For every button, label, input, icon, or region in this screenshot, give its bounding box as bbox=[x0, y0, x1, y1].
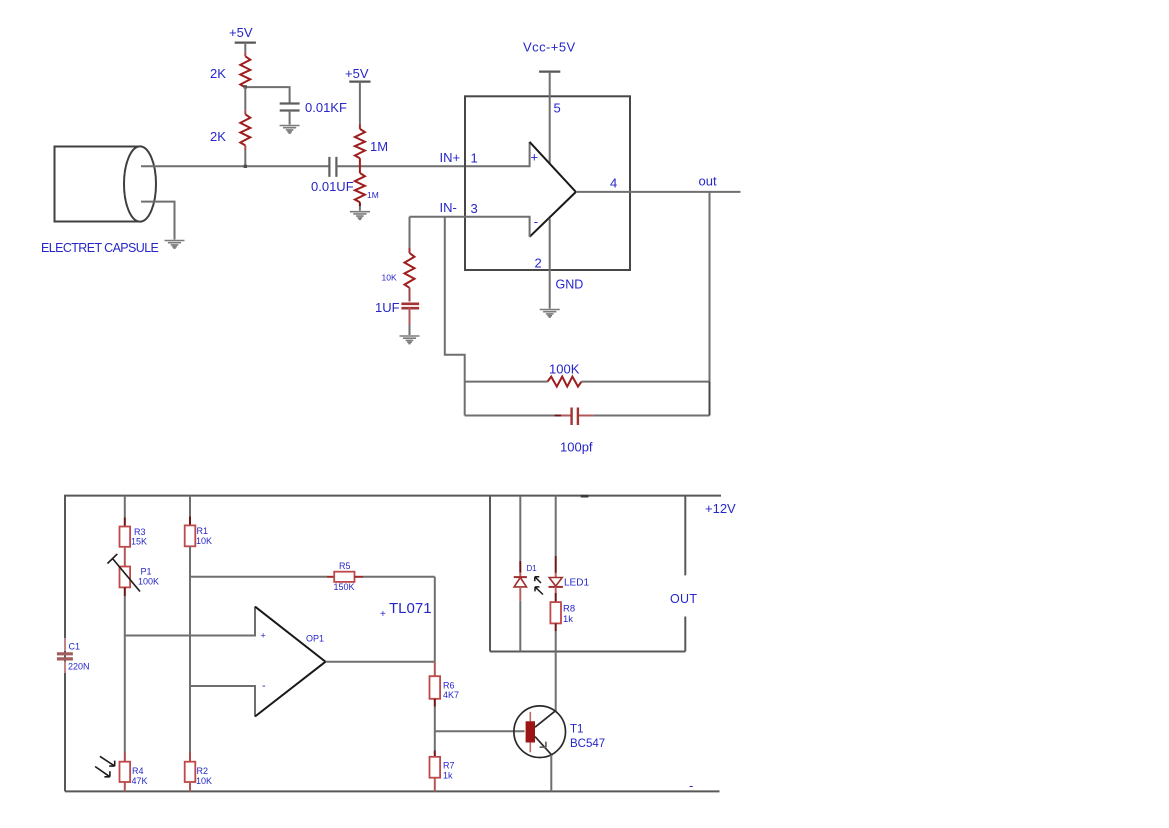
svg-text:out: out bbox=[699, 174, 717, 189]
svg-text:LED1: LED1 bbox=[564, 578, 589, 589]
resistor 2K lower bbox=[240, 114, 250, 145]
power +5V (right) bbox=[349, 81, 370, 83]
svg-text:R4: R4 bbox=[132, 766, 144, 776]
wire R5 net bbox=[190, 576, 327, 578]
svg-text:T1: T1 bbox=[570, 724, 583, 736]
svg-text:15K: 15K bbox=[131, 537, 147, 547]
resistor 2K upper bbox=[240, 56, 250, 87]
svg-text:+: + bbox=[531, 150, 539, 165]
svg-text:TL071: TL071 bbox=[389, 600, 432, 617]
wire R5 to output node bbox=[355, 576, 364, 578]
wire bbox=[189, 546, 191, 752]
svg-text:47K: 47K bbox=[132, 776, 148, 786]
svg-text:C1: C1 bbox=[69, 642, 81, 652]
svg-text:150K: 150K bbox=[334, 582, 355, 592]
wire mic ground bbox=[141, 202, 175, 240]
wire junction to cap bbox=[245, 87, 289, 103]
wire base bbox=[435, 730, 525, 732]
diode D1 bbox=[514, 496, 538, 652]
svg-text:2K: 2K bbox=[210, 66, 226, 81]
node junction main bbox=[244, 165, 247, 168]
resistor R6 bbox=[430, 662, 460, 700]
svg-text:10K: 10K bbox=[196, 536, 212, 546]
svg-text:1M: 1M bbox=[370, 139, 388, 154]
capacitor 0.01UF series bbox=[329, 157, 336, 177]
ground (capsule) bbox=[165, 241, 185, 249]
svg-text:1k: 1k bbox=[563, 614, 573, 625]
svg-text:R8: R8 bbox=[563, 604, 575, 615]
LDR arrows bbox=[95, 756, 115, 777]
svg-text:R2: R2 bbox=[197, 766, 209, 776]
resistor R8 bbox=[550, 587, 575, 652]
ground (1UF) bbox=[400, 336, 420, 344]
svg-text:4K7: 4K7 bbox=[443, 690, 459, 700]
ground (0.01KF) bbox=[280, 126, 300, 134]
capacitor C1 bbox=[57, 638, 90, 673]
wire op-amp output bbox=[326, 661, 435, 663]
resistor R1 bbox=[185, 525, 212, 546]
power Vcc bar bbox=[539, 71, 560, 73]
wire inverting input bbox=[190, 686, 255, 717]
svg-text:0.01KF: 0.01KF bbox=[305, 100, 347, 115]
wire to main line bbox=[244, 150, 246, 166]
svg-text:D1: D1 bbox=[527, 564, 538, 573]
wire 10K branch bbox=[409, 217, 411, 248]
svg-text:2: 2 bbox=[535, 256, 542, 271]
wire bbox=[124, 587, 126, 596]
op-amp OP1 triangle bbox=[255, 607, 326, 717]
svg-text:P1: P1 bbox=[141, 567, 152, 577]
comparator box U1 bbox=[465, 96, 630, 270]
wire bbox=[409, 288, 411, 302]
svg-text:BC547: BC547 bbox=[570, 738, 605, 750]
resistor R7 bbox=[430, 731, 455, 791]
svg-text:IN-: IN- bbox=[440, 200, 457, 215]
wire collector bbox=[555, 652, 557, 712]
capacitor 1UF bbox=[401, 304, 419, 308]
capacitor 0.01KF bbox=[280, 104, 300, 111]
wire bbox=[359, 158, 361, 173]
svg-text:100K: 100K bbox=[138, 577, 159, 587]
svg-text:+: + bbox=[261, 631, 266, 641]
wire bbox=[359, 82, 361, 125]
resistor 10K bbox=[405, 253, 415, 288]
resistor R4 LDR bbox=[120, 762, 148, 792]
load box outline bbox=[490, 496, 685, 652]
svg-text:100pf: 100pf bbox=[560, 440, 593, 455]
wire 100pf left bbox=[465, 415, 555, 417]
op-amp U1 triangle bbox=[530, 142, 576, 237]
svg-text:R5: R5 bbox=[339, 561, 351, 571]
svg-text:2K: 2K bbox=[210, 129, 226, 144]
electret capsule body bbox=[55, 146, 157, 221]
capacitor 100pf bbox=[555, 415, 562, 417]
wire OUT lower bbox=[684, 617, 686, 652]
wire emitter bbox=[550, 755, 552, 791]
wire cap to ground bbox=[289, 111, 291, 125]
wire 100pf right bbox=[594, 415, 710, 417]
wire branch 2 bbox=[189, 496, 191, 517]
power +5V (left) bbox=[235, 42, 256, 44]
svg-text:GND: GND bbox=[556, 278, 584, 292]
svg-text:1UF: 1UF bbox=[375, 300, 400, 315]
wire IN- net bbox=[410, 217, 530, 237]
resistor 100K feedback bbox=[548, 377, 582, 387]
svg-text:IN+: IN+ bbox=[440, 150, 461, 165]
svg-text:+12V: +12V bbox=[705, 501, 736, 516]
svg-text:-: - bbox=[689, 778, 693, 793]
wire pin 2 to ground bbox=[549, 219, 551, 309]
resistor 1M lower bbox=[355, 173, 365, 202]
LED arrows bbox=[535, 577, 543, 595]
svg-text:5: 5 bbox=[554, 101, 561, 116]
wire branch 1 bbox=[124, 496, 126, 518]
wire R6 to base node bbox=[434, 699, 436, 707]
svg-text:1k: 1k bbox=[443, 771, 453, 781]
svg-text:OP1: OP1 bbox=[306, 634, 324, 644]
svg-text:+: + bbox=[380, 609, 386, 620]
wire 100K left bbox=[465, 381, 548, 383]
svg-text:+5V: +5V bbox=[345, 66, 369, 81]
svg-text:R7: R7 bbox=[443, 761, 455, 771]
svg-text:R1: R1 bbox=[197, 526, 209, 536]
svg-text:-: - bbox=[534, 214, 538, 229]
wire mic output bbox=[141, 165, 329, 167]
svg-text:ELECTRET CAPSULE: ELECTRET CAPSULE bbox=[41, 241, 159, 255]
wire 100K right bbox=[582, 381, 710, 383]
wire pin 5 bbox=[549, 72, 551, 164]
wire feedback left bbox=[445, 217, 465, 416]
wire bbox=[244, 43, 246, 53]
svg-text:4: 4 bbox=[610, 176, 617, 191]
svg-text:OUT: OUT bbox=[670, 592, 697, 606]
svg-text:1M: 1M bbox=[367, 190, 379, 200]
wire after cap bbox=[336, 142, 529, 166]
wire noninverting input bbox=[125, 607, 255, 636]
resistor R3 bbox=[120, 527, 148, 547]
svg-text:1: 1 bbox=[471, 151, 478, 166]
node junction bbox=[244, 85, 247, 88]
svg-text:-: - bbox=[262, 680, 266, 692]
svg-text:10K: 10K bbox=[196, 776, 212, 786]
svg-text:Vcc-+5V: Vcc-+5V bbox=[523, 40, 576, 55]
svg-text:3: 3 bbox=[471, 201, 478, 216]
wire bbox=[244, 87, 246, 110]
resistor R2 bbox=[185, 762, 212, 792]
transistor T1 bbox=[514, 706, 605, 758]
ground (1M) bbox=[350, 212, 370, 220]
wire bbox=[124, 547, 126, 567]
trimmer P1 bbox=[108, 554, 160, 592]
svg-text:R3: R3 bbox=[134, 527, 146, 537]
resistor 1M upper bbox=[355, 129, 365, 158]
wire stub on rail bbox=[581, 495, 589, 498]
wire 0V rail bbox=[65, 790, 720, 792]
wire bbox=[409, 308, 411, 325]
resistor R5 bbox=[334, 561, 355, 592]
svg-text:100K: 100K bbox=[549, 362, 580, 377]
svg-text:220N: 220N bbox=[68, 662, 90, 672]
wire +12V rail bbox=[65, 496, 721, 792]
wire output pin 4 bbox=[576, 191, 741, 193]
svg-text:+5V: +5V bbox=[229, 25, 253, 40]
svg-text:R6: R6 bbox=[443, 681, 455, 691]
svg-text:10K: 10K bbox=[382, 273, 397, 283]
wire feedback right vertical bbox=[709, 192, 711, 416]
wire bbox=[359, 202, 361, 206]
wire OUT upper bbox=[684, 496, 686, 576]
svg-text:0.01UF: 0.01UF bbox=[311, 179, 354, 194]
ground (pin2) bbox=[540, 310, 560, 318]
LED LED1 bbox=[549, 496, 590, 589]
